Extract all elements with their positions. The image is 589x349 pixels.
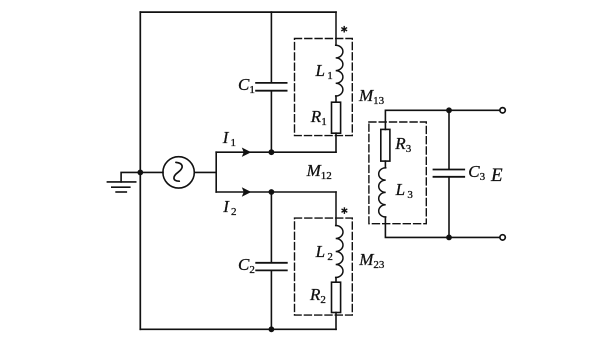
svg-text:L2: L2 [315, 242, 333, 263]
source AC [163, 157, 194, 188]
dashed box 3 [369, 122, 426, 224]
node bottom-C2 [269, 326, 275, 332]
svg-text:M23: M23 [358, 250, 385, 271]
wire top rail [140, 11, 336, 13]
node top-C3 [446, 107, 452, 113]
arrow I2 [242, 187, 251, 196]
wire right bottom rail [385, 217, 499, 237]
resistor R3 [381, 129, 390, 167]
arrow I1 [242, 148, 251, 157]
svg-text:C1: C1 [238, 75, 255, 96]
resistor R1 [332, 96, 341, 152]
terminal bottom [500, 235, 505, 240]
inductor L3 [379, 168, 386, 217]
dashed box 2 [295, 218, 353, 315]
svg-text:L3: L3 [395, 180, 414, 201]
dashed box 1 [295, 39, 353, 136]
inductor L1 [336, 12, 343, 96]
svg-text:E: E [490, 165, 503, 186]
capacitor C1 [256, 12, 287, 152]
capacitor C2 [256, 192, 287, 329]
wire left vertical [139, 12, 141, 329]
node I1-C1 [269, 149, 275, 155]
ground [107, 172, 140, 192]
resistor R2 [332, 278, 341, 330]
wire bottom rail [140, 328, 336, 330]
svg-text:I1: I1 [222, 128, 236, 149]
node source-left [137, 170, 143, 176]
wire source right [194, 171, 216, 173]
svg-text:C2: C2 [238, 255, 255, 276]
capacitor C3 [434, 110, 465, 237]
wire fork vertical [215, 152, 217, 192]
wire I2 [216, 191, 336, 193]
wire right top rail [385, 110, 499, 129]
terminal top [500, 108, 505, 113]
dot marker L1 [341, 26, 347, 33]
wire source left [140, 171, 163, 173]
inductor L2 [336, 192, 343, 278]
svg-text:M12: M12 [306, 161, 332, 182]
wire I1 [216, 151, 336, 153]
svg-text:I2: I2 [222, 197, 236, 218]
svg-text:C3: C3 [468, 162, 485, 183]
dot marker L2 [342, 207, 348, 214]
svg-text:R1: R1 [310, 107, 327, 128]
node bottom-C3 [446, 235, 452, 241]
svg-text:L1: L1 [315, 61, 333, 82]
svg-text:R3: R3 [394, 134, 411, 155]
svg-text:R2: R2 [309, 285, 326, 306]
node I2-C2 [269, 189, 275, 195]
svg-text:M13: M13 [358, 86, 385, 107]
